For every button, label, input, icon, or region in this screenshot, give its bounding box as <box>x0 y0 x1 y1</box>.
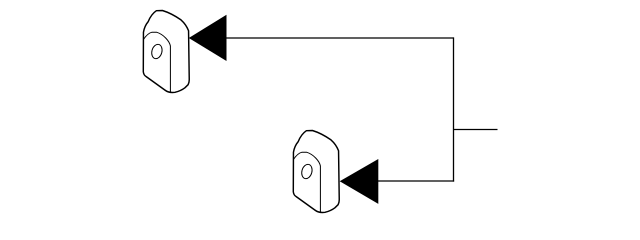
wire: callout stub to part number <box>454 129 498 131</box>
grommet pad part 1 (top left) <box>143 11 189 93</box>
leader arrow 1 <box>189 15 227 61</box>
wire: bottom horizontal leader line <box>378 180 454 182</box>
leader arrow 2 <box>340 159 379 204</box>
wire: top horizontal leader line <box>226 37 454 39</box>
grommet pad part 2 (bottom middle) <box>293 131 339 213</box>
wire: right vertical connector <box>453 37 455 181</box>
